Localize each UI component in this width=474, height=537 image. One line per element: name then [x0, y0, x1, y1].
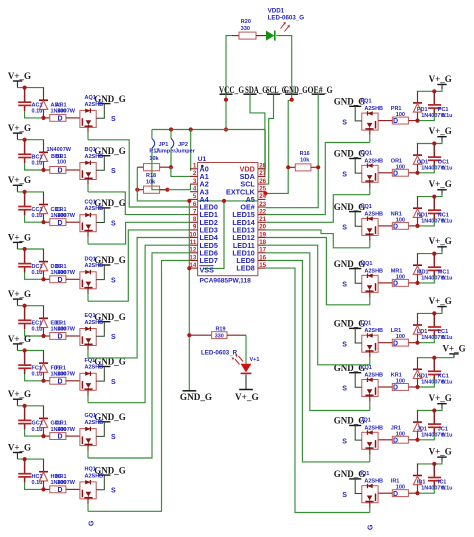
- ground flag GND_G (J): [334, 416, 366, 440]
- label MD1: [417, 269, 429, 275]
- transistor BQ1 A2SHB: [80, 161, 96, 180]
- label CD1: [51, 207, 62, 213]
- wire cap bottom (D): [25, 273, 44, 280]
- svg-text:S: S: [342, 172, 347, 179]
- svg-text:D: D: [393, 385, 398, 392]
- label HQ1: [85, 467, 96, 473]
- svg-text:1N4007W: 1N4007W: [47, 147, 72, 153]
- junction dot R16 right: [316, 165, 320, 169]
- power flag V+_G (D block): [8, 232, 31, 249]
- wire cap bottom (H): [25, 483, 44, 490]
- pin 19 stub: [258, 237, 266, 239]
- svg-text:A2SHB: A2SHB: [364, 373, 383, 379]
- diode FD1 1N4007W: [39, 351, 48, 381]
- label 10k (R17): [149, 156, 159, 162]
- label D pin (F): [58, 378, 63, 385]
- pin name VDD: [240, 164, 255, 173]
- resistor FR1 100: [44, 377, 80, 384]
- capacitor OC1: [428, 144, 441, 167]
- wire K gate net to LED10 pin: [266, 253, 370, 411]
- label Jumper (JP1): [156, 149, 177, 155]
- label 1N4007W (O): [421, 165, 446, 171]
- svg-text:A2SHB: A2SHB: [364, 106, 383, 112]
- wire C FET source down: [87, 232, 89, 244]
- pin number 3: [193, 178, 197, 185]
- pin 7 stub: [190, 214, 198, 216]
- svg-text:21: 21: [259, 216, 266, 223]
- wire F gate net to LED5 pin: [88, 245, 190, 403]
- svg-text:15: 15: [259, 262, 266, 269]
- label R18: [146, 173, 156, 179]
- svg-text:A2SHB: A2SHB: [85, 154, 104, 160]
- power flag V+_G (O block): [429, 126, 452, 142]
- svg-text:V+1: V+1: [250, 357, 260, 363]
- label 0.1u (J): [442, 432, 453, 438]
- power flag V+_G (L block): [429, 296, 452, 312]
- svg-text:S: S: [342, 282, 347, 289]
- wire P FET source down: [369, 130, 371, 142]
- svg-text:S: S: [111, 434, 116, 441]
- svg-text:DC1: DC1: [32, 264, 43, 270]
- label 1N4007W (H): [51, 480, 76, 486]
- label OR1: [391, 158, 402, 164]
- pin 1 stub: [190, 168, 198, 170]
- svg-text:V+_G: V+_G: [443, 344, 466, 354]
- capacitor NC1: [428, 197, 441, 220]
- resistor MR1 100: [378, 279, 417, 286]
- wire cap bottom (B): [25, 163, 44, 170]
- wire H FET source down: [87, 499, 89, 511]
- pin 8 stub: [190, 221, 198, 223]
- pin name LED13: [232, 226, 254, 235]
- pin 13 stub: [190, 260, 198, 262]
- pin name A0: [200, 164, 209, 173]
- svg-text:100: 100: [57, 213, 66, 219]
- junction dot cap/C: [23, 190, 27, 194]
- junction dot cap/M: [432, 252, 436, 256]
- pin number 13: [189, 254, 196, 261]
- pin name EXTCLK: [226, 187, 256, 196]
- power flag V+_G bottom: [235, 374, 259, 401]
- junction dot cap/D: [23, 247, 27, 251]
- label EC1: [32, 321, 43, 327]
- power flag V+_G (K block, offset): [443, 344, 466, 358]
- junction dot R19 left: [187, 333, 191, 337]
- svg-text:100: 100: [396, 164, 405, 170]
- pin number 4: [193, 186, 197, 193]
- transistor IQ1 A2SHB: [362, 484, 378, 503]
- svg-text:AQ1: AQ1: [85, 95, 96, 101]
- label R16: [300, 151, 310, 157]
- transistor EQ1 A2SHB: [80, 327, 96, 346]
- svg-text:A2SHB: A2SHB: [85, 320, 104, 326]
- pin name LED0: [200, 203, 218, 212]
- label 1N4007W (K): [421, 380, 446, 386]
- svg-text:V+_G: V+_G: [429, 446, 452, 456]
- junction dot pin5 A4: [187, 199, 191, 203]
- pin number 14: [189, 262, 196, 269]
- label HR1: [56, 474, 67, 480]
- wire A4/VSS to bottom GND: [188, 201, 190, 390]
- label 100 (E): [57, 327, 66, 333]
- svg-text:100: 100: [396, 217, 405, 223]
- svg-text:100: 100: [57, 480, 66, 486]
- pin name SCL: [240, 180, 255, 189]
- wire C gate net to LED2 pin: [88, 222, 190, 244]
- net label G (left bus): [88, 520, 95, 526]
- label KC1: [438, 374, 449, 380]
- junction dot cap/I: [432, 462, 436, 466]
- resistor BR1 100: [44, 167, 80, 174]
- power flag V+_G (I block): [429, 446, 452, 462]
- svg-text:CR1: CR1: [56, 207, 67, 213]
- label HD1: [51, 474, 62, 480]
- svg-text:A2SHB: A2SHB: [364, 328, 383, 334]
- junction dot A0 branch: [189, 127, 193, 131]
- label FD1: [51, 365, 61, 371]
- label JQ1: [361, 418, 371, 424]
- svg-text:BC1: BC1: [32, 155, 43, 161]
- diode MD1 1N4007W: [413, 254, 422, 283]
- svg-text:0.1u: 0.1u: [32, 427, 43, 433]
- resistor R17 10k: [137, 164, 171, 171]
- label PC1: [438, 107, 449, 113]
- svg-text:17: 17: [259, 247, 266, 254]
- label ER1: [56, 321, 67, 327]
- wire VCC down: [225, 94, 227, 129]
- label S pin (A): [111, 116, 116, 123]
- junction dot R18 right: [165, 188, 169, 192]
- label 0.1u (O): [442, 165, 453, 171]
- svg-text:FQ1: FQ1: [85, 358, 96, 364]
- label OQ1: [361, 151, 373, 157]
- resistor KR1 100: [378, 384, 417, 391]
- label MR1: [391, 268, 403, 274]
- wire JP1 to A2 net: [152, 148, 168, 189]
- svg-text:EC1: EC1: [32, 321, 43, 327]
- diode HD1 1N4007W: [39, 459, 48, 489]
- resistor CR1 100: [44, 219, 80, 226]
- pin name OE#: [240, 203, 254, 212]
- pin number 5: [193, 193, 197, 200]
- junction dot cap/L: [432, 311, 436, 315]
- resistor LR1 100: [378, 339, 417, 346]
- label S pin (B): [111, 168, 116, 175]
- label BQ1: [85, 147, 96, 153]
- label 100 (M): [396, 274, 405, 280]
- diode ID1 1N4007W: [413, 464, 422, 493]
- label JP2: [178, 142, 188, 148]
- ground flag GND_G (K): [334, 363, 366, 387]
- svg-text:0.1u: 0.1u: [442, 486, 453, 492]
- svg-text:A2SHB: A2SHB: [364, 158, 383, 164]
- pin 6 stub: [190, 206, 198, 208]
- junction dot pin14 VSS: [187, 266, 191, 270]
- label D pin (J): [393, 437, 398, 444]
- svg-text:D: D: [393, 340, 398, 347]
- wire B FET source down: [87, 180, 89, 192]
- pin number 8: [193, 216, 197, 223]
- label LED-0603_G: [268, 15, 305, 22]
- junction dot GND upper: [290, 98, 294, 102]
- svg-text:S: S: [342, 119, 347, 126]
- resistor GR1 100: [44, 433, 80, 440]
- port flag VCC_G: [219, 85, 244, 95]
- pin number 28: [259, 163, 266, 170]
- svg-text:16: 16: [259, 254, 266, 261]
- power flag V+_G (J block): [429, 393, 452, 409]
- label 0.1u (M): [442, 275, 453, 281]
- label S pin (C): [111, 220, 116, 227]
- wire internal A4/A5/VSS tie: [198, 201, 258, 269]
- svg-text:KQ1: KQ1: [361, 365, 372, 371]
- svg-text:A2SHB: A2SHB: [85, 365, 104, 371]
- svg-text:AC1: AC1: [32, 103, 43, 109]
- wire OE# down to pin23: [266, 94, 319, 208]
- svg-text:FR1: FR1: [56, 365, 66, 371]
- label D pin (N): [393, 224, 398, 231]
- label ND1: [417, 212, 428, 218]
- wire cap bottom (K): [418, 380, 435, 387]
- capacitor AC1: [18, 88, 31, 112]
- svg-text:24: 24: [259, 193, 266, 200]
- svg-text:A2SHB: A2SHB: [85, 420, 104, 426]
- label LED-0603_R: [201, 350, 238, 357]
- svg-text:100: 100: [396, 112, 405, 118]
- junction dot rail2/L: [415, 341, 419, 345]
- svg-text:D: D: [58, 378, 63, 385]
- svg-text:HQ1: HQ1: [85, 467, 96, 473]
- LED V+1 LED-0603_R: [232, 354, 252, 373]
- svg-text:MQ1: MQ1: [361, 261, 373, 267]
- port flag SCL_G: [266, 85, 287, 95]
- label S pin (E): [111, 334, 116, 341]
- diode KD1 1N4007W: [413, 358, 422, 387]
- svg-text:Jumper: Jumper: [156, 149, 177, 155]
- svg-text:V+_G: V+_G: [8, 334, 31, 344]
- svg-text:R20: R20: [241, 19, 251, 25]
- svg-text:11: 11: [190, 239, 197, 246]
- pin 15 stub: [258, 267, 266, 269]
- svg-text:0.1u: 0.1u: [32, 270, 43, 276]
- label S pin (L): [342, 341, 347, 348]
- svg-text:0.1u: 0.1u: [442, 165, 453, 171]
- capacitor BC1: [18, 140, 31, 164]
- capacitor HC1: [18, 459, 31, 483]
- svg-text:V+_G: V+_G: [429, 296, 452, 306]
- label S pin (O): [342, 172, 347, 179]
- label 100 (D): [57, 270, 66, 276]
- pin number 22: [259, 208, 266, 215]
- label 1N4007W (G): [51, 427, 76, 433]
- svg-text:2: 2: [193, 170, 197, 177]
- wire M FET source down: [369, 292, 371, 304]
- label KQ1: [361, 365, 372, 371]
- junction dot rail2/I: [415, 491, 419, 495]
- pin 28 stub: [258, 168, 266, 170]
- label 100 (O): [396, 164, 405, 170]
- wire L FET source down: [369, 352, 371, 365]
- svg-text:9: 9: [193, 224, 197, 231]
- svg-text:0.1u: 0.1u: [32, 109, 43, 115]
- label 0.1u (F): [32, 372, 43, 378]
- pin name LED6: [200, 248, 218, 257]
- label D pin (D): [58, 277, 63, 284]
- svg-text:GND_G: GND_G: [180, 392, 212, 402]
- diode BD1 1N4007W: [39, 140, 48, 170]
- label 100 (F): [57, 372, 66, 378]
- wire V+ rail (E): [17, 305, 44, 307]
- wire A FET source down: [87, 127, 89, 139]
- junction dot R18 left: [135, 188, 139, 192]
- junction dot cap/K: [432, 356, 436, 360]
- svg-text:0.1u: 0.1u: [442, 113, 453, 119]
- label 330 (R19): [215, 334, 224, 340]
- ground flag GND_G (M): [334, 259, 366, 283]
- wire cap bottom (N): [418, 219, 435, 226]
- svg-text:S: S: [111, 220, 116, 227]
- svg-text:S: S: [342, 492, 347, 499]
- wire V+ rail (A): [17, 87, 44, 89]
- label IR1: [391, 479, 400, 485]
- junction dot VCC rail: [224, 127, 228, 131]
- svg-text:100: 100: [57, 327, 66, 333]
- resistor OR1 100: [378, 169, 417, 176]
- label D pin (O): [393, 170, 398, 177]
- label CQ1: [85, 199, 96, 205]
- svg-text:U1: U1: [198, 156, 207, 163]
- junction dot rail2/O: [415, 171, 419, 175]
- wire cap bottom (L): [418, 336, 435, 343]
- svg-text:12: 12: [189, 247, 196, 254]
- label A2SHB (E): [85, 320, 104, 326]
- wire E gate net to LED4 pin: [88, 238, 190, 358]
- svg-text:LED7: LED7: [200, 256, 218, 265]
- label BR1: [56, 154, 67, 160]
- junction dot rail2/E: [41, 334, 45, 338]
- label IQ1: [361, 471, 370, 477]
- svg-text:D: D: [393, 224, 398, 231]
- label 1N4007W (C): [51, 213, 76, 219]
- wire cap bottom (O): [418, 166, 435, 173]
- resistor PR1 100: [378, 117, 417, 124]
- svg-text:NQ1: NQ1: [361, 204, 372, 210]
- junction dot cap/P: [432, 89, 436, 93]
- svg-text:S: S: [342, 439, 347, 446]
- wire V+ rail (H): [17, 458, 44, 460]
- label PD1: [417, 107, 428, 113]
- label NC1: [438, 212, 449, 218]
- transistor KQ1 A2SHB: [362, 378, 378, 397]
- wire I FET source down: [369, 503, 371, 513]
- label GQ1: [85, 413, 97, 419]
- svg-text:V+_G: V+_G: [8, 232, 31, 242]
- label A2SHB (B): [85, 154, 104, 160]
- svg-text:OQ1: OQ1: [361, 151, 373, 157]
- resistor JR1 100: [378, 436, 417, 443]
- label S pin (D): [111, 277, 116, 284]
- pin number 9: [193, 224, 197, 231]
- svg-text:3: 3: [193, 178, 197, 185]
- label S pin (F): [111, 379, 116, 386]
- pin number 12: [189, 247, 196, 254]
- svg-text:OE#_G: OE#_G: [308, 85, 333, 95]
- svg-text:D: D: [393, 118, 398, 125]
- label 1N4007W (E): [51, 327, 76, 333]
- label DD1: [51, 264, 62, 270]
- label OC1: [438, 159, 449, 165]
- svg-text:0.1u: 0.1u: [442, 432, 453, 438]
- wire SCL to pin26: [266, 94, 274, 184]
- capacitor JC1: [428, 411, 441, 434]
- wire V+ rail (N): [417, 195, 442, 197]
- label HC1: [32, 474, 43, 480]
- resistor IR1 100: [378, 490, 417, 497]
- svg-text:R16: R16: [300, 151, 310, 157]
- wire O gate net to LED14 pin: [266, 195, 370, 223]
- svg-text:100: 100: [396, 274, 405, 280]
- diode DD1 1N4007W: [39, 249, 48, 279]
- diode ND1 1N4007W: [413, 197, 422, 226]
- svg-text:SDA_G: SDA_G: [245, 85, 268, 95]
- label 100 (L): [396, 334, 405, 340]
- label 100 (B): [57, 160, 66, 166]
- svg-text:AR1: AR1: [56, 103, 67, 109]
- label NQ1: [361, 204, 372, 210]
- svg-text:A2SHB: A2SHB: [364, 268, 383, 274]
- label S pin (H): [111, 488, 116, 495]
- wire A2 to pin3: [167, 184, 190, 190]
- diode LD1 1N4007W: [413, 313, 422, 342]
- label A2SHB (P): [364, 106, 383, 112]
- svg-text:A2SHB: A2SHB: [85, 102, 104, 108]
- svg-text:10: 10: [189, 231, 196, 238]
- wire R19 to LED V+1: [245, 335, 247, 364]
- ground flag GND_G (G): [94, 412, 126, 436]
- port flag OE#_G: [308, 85, 333, 95]
- wire K FET source down: [369, 397, 371, 411]
- ground flag GND_G (E): [94, 312, 126, 336]
- svg-text:JQ1: JQ1: [361, 418, 371, 424]
- svg-text:LED-0603_G: LED-0603_G: [268, 15, 305, 22]
- svg-text:S: S: [342, 225, 347, 232]
- pin 14 stub: [190, 267, 198, 269]
- wire B gate net to LED1 pin: [88, 192, 190, 215]
- svg-text:DR1: DR1: [56, 264, 67, 270]
- label AQ1: [85, 95, 96, 101]
- pin name VSS: [200, 265, 215, 274]
- svg-text:23: 23: [259, 201, 266, 208]
- label 1N4007W (N): [421, 218, 446, 224]
- pin number 26: [259, 178, 266, 185]
- junction dot VCC upper: [224, 98, 228, 102]
- pin number 16: [259, 254, 266, 261]
- junction dot cap/G: [23, 404, 27, 408]
- junction dot rail2/P: [415, 119, 419, 123]
- label R20: [241, 19, 251, 25]
- svg-text:D: D: [393, 170, 398, 177]
- pin 11 stub: [190, 244, 198, 246]
- junction dot pin25 EXTCLK: [263, 191, 267, 195]
- capacitor FC1: [18, 351, 31, 375]
- pin 4 stub: [190, 191, 198, 193]
- power flag V+_G (E block): [8, 289, 31, 306]
- svg-text:8: 8: [193, 216, 197, 223]
- junction dot rail2/M: [415, 281, 419, 285]
- wire cap bottom (G): [25, 429, 44, 436]
- wire R17/R18 left to A4 GND net: [137, 167, 189, 201]
- pin number 18: [259, 239, 266, 246]
